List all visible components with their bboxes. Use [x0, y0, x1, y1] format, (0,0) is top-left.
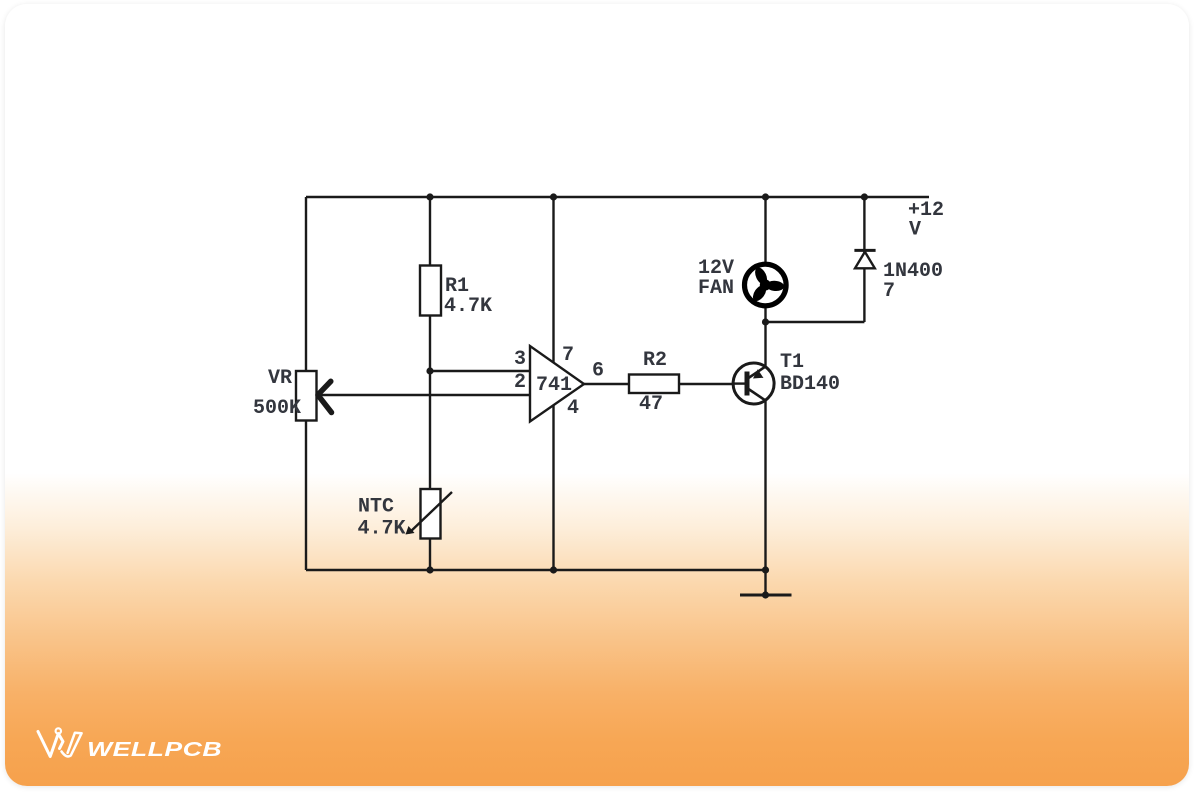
potentiometer VR wiper arrow — [318, 381, 332, 412]
thermistor NTC diagonal stroke — [409, 492, 452, 533]
wire pin2 input — [318, 394, 530, 396]
node fan-diode — [762, 318, 769, 325]
diode D1 triangle — [855, 252, 875, 268]
svg-text:VR: VR — [268, 367, 292, 390]
wire fan/transistor vertical — [764, 197, 766, 595]
node pin3 junction — [426, 367, 433, 374]
svg-text:R2: R2 — [643, 349, 667, 372]
wire pin3 input — [430, 370, 530, 372]
wire diode to fan node — [766, 321, 865, 323]
ground symbol — [740, 594, 792, 597]
fan hub — [760, 280, 771, 291]
svg-text:4: 4 — [567, 397, 579, 420]
node top op-amp — [550, 193, 557, 200]
svg-text:V: V — [909, 219, 921, 242]
svg-text:T1: T1 — [780, 351, 804, 374]
node top R1 — [426, 193, 433, 200]
logo WELLPCB text — [87, 738, 222, 760]
wire diode vertical — [863, 197, 865, 322]
svg-text:FAN: FAN — [698, 277, 734, 300]
transistor T1 — [733, 363, 774, 404]
node top fan — [762, 193, 769, 200]
ground junction dot — [762, 591, 769, 598]
svg-text:3: 3 — [514, 348, 526, 371]
fan blade right — [766, 280, 785, 292]
svg-text:47: 47 — [639, 393, 663, 416]
node bottom NTC — [426, 566, 433, 573]
svg-text:NTC: NTC — [358, 496, 394, 519]
svg-text:2: 2 — [514, 371, 526, 394]
diode D1 cathode bar — [854, 249, 875, 252]
fan blade up — [753, 266, 770, 287]
svg-text:BD140: BD140 — [780, 373, 840, 396]
fan blade lower-left — [750, 283, 769, 304]
svg-text:6: 6 — [592, 360, 604, 383]
fan M1 — [745, 264, 787, 306]
thermistor NTC — [421, 489, 441, 539]
node top diode — [861, 193, 868, 200]
svg-text:500K: 500K — [253, 397, 301, 420]
thermistor NTC arrowhead — [406, 526, 415, 535]
wire top rail — [306, 196, 929, 198]
svg-text:WELLPCB: WELLPCB — [87, 738, 222, 760]
svg-text:4.7K: 4.7K — [444, 295, 492, 318]
resistor R1 — [420, 266, 441, 316]
transistor T1 base bar — [745, 372, 750, 396]
transistor T1 emitter branch — [747, 367, 766, 380]
wire R1/NTC vertical — [429, 197, 431, 570]
resistor R2 — [629, 375, 679, 394]
svg-text:7: 7 — [883, 280, 895, 303]
transistor T1 collector branch — [747, 388, 766, 401]
svg-text:4.7K: 4.7K — [358, 518, 406, 541]
logo W icon — [38, 728, 82, 756]
svg-text:7: 7 — [562, 344, 574, 367]
wire left rail — [305, 197, 307, 570]
potentiometer VR — [296, 371, 317, 421]
node bottom transistor — [762, 566, 769, 573]
svg-text:741: 741 — [536, 374, 572, 397]
wire op-amp output — [584, 383, 629, 385]
op-amp U1 741 — [530, 346, 584, 422]
wire transistor base — [679, 383, 734, 385]
wire op-amp supply vertical — [552, 197, 554, 570]
transistor T1 base wire inside circle — [732, 382, 747, 384]
wire bottom rail — [306, 569, 766, 571]
transistor T1 emitter arrow — [753, 369, 763, 378]
node bottom op-amp — [550, 566, 557, 573]
